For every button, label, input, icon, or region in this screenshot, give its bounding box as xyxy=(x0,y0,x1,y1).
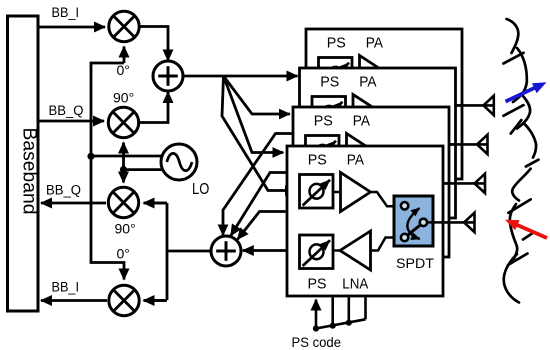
svg-text:BB_I: BB_I xyxy=(52,5,80,20)
svg-text:PS code: PS code xyxy=(292,334,342,350)
svg-text:90°: 90° xyxy=(113,90,134,106)
svg-text:PS: PS xyxy=(327,35,346,52)
svg-text:Baseband: Baseband xyxy=(19,128,40,215)
svg-text:90°: 90° xyxy=(115,221,136,237)
svg-text:LO: LO xyxy=(192,181,209,198)
svg-text:BB_Q: BB_Q xyxy=(46,182,81,197)
svg-text:PA: PA xyxy=(366,35,383,52)
svg-text:BB_Q: BB_Q xyxy=(49,103,84,118)
svg-text:0°: 0° xyxy=(117,245,130,261)
svg-text:0°: 0° xyxy=(117,62,130,78)
svg-text:BB_I: BB_I xyxy=(52,279,80,294)
